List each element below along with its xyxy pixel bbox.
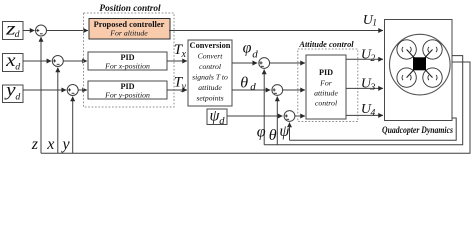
input block y_d <box>3 80 24 103</box>
svg-text:d: d <box>252 49 258 61</box>
svg-text:For altitude: For altitude <box>109 29 148 38</box>
svg-text:For: For <box>319 79 333 88</box>
feedback wire theta up-arrow <box>276 97 278 145</box>
rotor rear-left <box>397 68 416 87</box>
svg-text:For x-position: For x-position <box>104 62 150 71</box>
wire PID x to conversion, label Tx <box>167 60 187 62</box>
wire x_d to summer <box>23 60 51 62</box>
wire psi_d to summer psi <box>227 115 283 117</box>
wire U3 attitude PID to quadcopter <box>346 87 383 89</box>
svg-text:θ: θ <box>269 127 277 144</box>
svg-text:PID: PID <box>319 68 333 77</box>
proposed controller block <box>89 19 170 40</box>
PID y-position block <box>88 81 167 100</box>
svg-text:attitude: attitude <box>314 89 338 98</box>
wire z_d to summer <box>23 30 35 32</box>
quadcopter center hub <box>413 57 426 70</box>
label U_1 <box>363 13 377 29</box>
svg-text:d: d <box>219 116 225 127</box>
svg-text:θ: θ <box>240 75 248 92</box>
PID x-position block <box>88 52 167 71</box>
svg-text:y: y <box>61 136 71 153</box>
wire summer x to PID x <box>63 60 87 62</box>
label phi_d <box>243 40 259 61</box>
wire conversion to summer theta, label theta_d <box>232 89 270 91</box>
svg-text:control: control <box>315 99 337 108</box>
position control dashed box <box>84 13 175 107</box>
wire y_d to summer <box>23 89 66 91</box>
svg-text:Attitude control: Attitude control <box>298 40 354 49</box>
svg-text:d: d <box>15 29 20 40</box>
label theta_d <box>240 75 256 93</box>
quadcopter arms <box>407 50 433 78</box>
rotor front-left <box>397 40 416 59</box>
quadcopter body circle <box>390 34 451 95</box>
wire U2 attitude PID to quadcopter <box>346 58 383 60</box>
svg-text:Conversion: Conversion <box>190 41 231 50</box>
wire U4 attitude PID to quadcopter <box>346 114 383 116</box>
svg-text:x: x <box>181 49 187 60</box>
svg-text:4: 4 <box>371 109 376 119</box>
rotor front-right <box>423 40 442 59</box>
svg-text:Convert: Convert <box>198 52 224 61</box>
svg-text:φ: φ <box>257 124 266 141</box>
input block z_d <box>3 18 24 40</box>
svg-text:3: 3 <box>370 83 376 93</box>
summing junction x <box>52 56 63 67</box>
label U_4 <box>361 102 376 119</box>
label U_3 <box>361 77 376 94</box>
wire summer z to proposed controller <box>47 30 89 32</box>
svg-text:z: z <box>31 136 39 153</box>
svg-text:ψ: ψ <box>279 123 290 140</box>
feedback wire z-x-y from quadcopter right <box>41 62 470 153</box>
svg-text:d: d <box>15 92 20 103</box>
svg-text:attitude: attitude <box>198 83 222 92</box>
label T_y <box>174 75 187 93</box>
label U_2 <box>361 47 376 64</box>
feedback wire psi from quadcopter right <box>290 118 457 140</box>
feedback wire x up-arrow <box>57 68 59 154</box>
input block x_d <box>3 50 24 73</box>
summing junction phi <box>259 58 270 69</box>
svg-text:d: d <box>15 61 20 72</box>
feedback wire z up-arrow <box>40 37 42 153</box>
svg-text:2: 2 <box>371 54 376 64</box>
summing junction z <box>36 25 47 36</box>
feedback wire y up-arrow <box>72 97 74 154</box>
svg-text:setpoints: setpoints <box>196 94 223 103</box>
feedback wire phi up-arrow <box>263 70 265 145</box>
wire PID y to conversion, label Ty <box>167 89 187 91</box>
svg-text:d: d <box>250 81 256 93</box>
svg-text:y: y <box>181 81 187 92</box>
svg-text:y: y <box>4 80 16 100</box>
summing junction y <box>67 85 78 96</box>
svg-text:Quadcopter Dynamics: Quadcopter Dynamics <box>382 125 453 135</box>
svg-text:For y-position: For y-position <box>104 91 150 100</box>
quadcopter dynamics block <box>385 20 453 121</box>
svg-text:φ: φ <box>243 40 252 57</box>
svg-text:1: 1 <box>372 19 377 29</box>
wire summer theta to attitude PID <box>283 89 305 91</box>
input block psi_d <box>207 108 227 127</box>
feedback wire psi up-arrow <box>289 123 291 141</box>
feedback wire phi-theta from quadcopter right <box>264 56 463 145</box>
svg-text:x: x <box>5 50 16 70</box>
conversion block <box>188 40 232 106</box>
wire summer phi to attitude PID <box>270 62 305 64</box>
svg-text:signals T to: signals T to <box>192 73 228 82</box>
rotor rear-right <box>423 68 442 87</box>
wire summer y to PID y <box>78 89 87 91</box>
wire U1 proposed controller to quadcopter <box>169 30 383 32</box>
label T_x <box>174 42 187 60</box>
PID attitude block <box>306 55 346 119</box>
svg-text:x: x <box>46 136 54 153</box>
attitude control dashed box <box>298 49 358 122</box>
svg-text:control: control <box>199 62 221 71</box>
wire conversion to summer phi, label phi_d <box>232 62 257 64</box>
summing junction psi <box>284 111 295 122</box>
wire summer psi to attitude PID <box>295 115 305 117</box>
summing junction theta <box>272 85 283 96</box>
